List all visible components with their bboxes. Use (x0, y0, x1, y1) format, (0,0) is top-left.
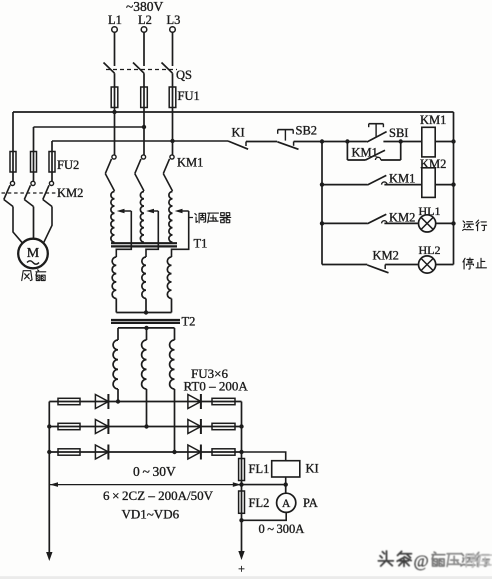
contact KM1 interlock (367, 175, 422, 185)
T1 wiper arrow 2 (146, 209, 158, 214)
label 0~30V (133, 464, 176, 479)
wire T1 wiper drop 1 (116, 211, 131, 257)
fuse FU2 pole 1 (10, 152, 16, 182)
wire T2 primary tail 2 (145, 299, 147, 313)
wire SB1 to coil KM1 (383, 141, 421, 143)
label KM2 row4 (373, 249, 399, 263)
diode VD left 3 (95, 445, 108, 460)
label 停止 (463, 258, 486, 269)
transformer T2 primary winding 3 (167, 257, 171, 298)
label 风扇 (22, 270, 46, 281)
junction L3 (170, 139, 174, 143)
label FU1 (178, 89, 200, 103)
fuse FU3 left 1 (58, 398, 80, 404)
junction rectifier phase 3 (172, 450, 176, 454)
negative output arrow (46, 552, 52, 561)
label SB2 (296, 124, 318, 138)
label T1 (194, 237, 208, 251)
svg-text:KI: KI (232, 126, 245, 140)
wire main bus L1 (13, 111, 454, 113)
label FL1 (249, 462, 270, 476)
junction row2 left (320, 182, 324, 186)
coil KM1 (422, 127, 435, 157)
transformer T1 winding 2 (140, 192, 144, 243)
svg-text:RT0 – 200A: RT0 – 200A (184, 379, 249, 394)
switch QS pole 1 blade (104, 63, 115, 88)
svg-text:M: M (27, 246, 40, 261)
label 6x2CZ-200A/50V (103, 488, 214, 503)
KM2 linkage dashed (2, 192, 57, 194)
contactor KM2 main contact 1 (4, 181, 15, 206)
label KM2 row3 (389, 211, 415, 225)
svg-text:L3: L3 (167, 13, 181, 27)
wire row2 lead (322, 184, 367, 186)
T1 core (111, 243, 177, 246)
QS linkage dashed (106, 69, 177, 71)
label K1 coil (306, 462, 319, 476)
svg-text:6 × 2CZ – 200A/50V: 6 × 2CZ – 200A/50V (103, 488, 214, 503)
junction row3 left (320, 221, 324, 225)
wire selfhold down (346, 142, 348, 161)
label KM2 main (57, 186, 83, 200)
wire rectifier row 3 (49, 451, 241, 453)
wire SB2 to SB1 (294, 141, 367, 143)
junction bus-L1 (112, 110, 116, 114)
dimension line 0-30V (49, 482, 241, 487)
label HL2 (419, 243, 441, 257)
terminal L1 (108, 13, 122, 32)
wire L2 drop (143, 32, 145, 66)
svg-text:FL1: FL1 (249, 462, 270, 476)
label FL2 (249, 496, 270, 510)
label FU3x6 (191, 366, 228, 381)
svg-text:L2: L2 (138, 13, 152, 27)
wire left control column (321, 142, 323, 265)
scan edge shade bottom (0, 576, 492, 579)
wire coil KM2 to bus (435, 184, 453, 186)
junction selfhold left (345, 139, 349, 143)
transformer T2 primary winding 2 (142, 257, 146, 298)
label T2 (182, 315, 196, 329)
shunt FL2 (239, 491, 245, 513)
motor M fan (18, 239, 48, 269)
junction rectifier phase 1 (116, 399, 120, 403)
junction selfhold right (399, 139, 403, 143)
wire T2 phase 3 to rectifier (174, 389, 176, 452)
junction pos row3 (239, 450, 243, 454)
fuse FU3 right 3 (212, 449, 235, 455)
lamp HL1 run (419, 215, 436, 232)
T1 wiper arrow 1 (117, 209, 132, 214)
wire phase 1 to KM1 (114, 112, 116, 155)
wire K1 branch bottom (242, 477, 286, 485)
fuse FU1 pole 3 (169, 87, 176, 112)
fuse FU3 right 2 (212, 423, 235, 429)
coil KM2 (422, 168, 435, 198)
diode VD right 3 (188, 445, 201, 460)
svg-text:KM1: KM1 (177, 156, 203, 170)
contactor KM1 main contact 3 (163, 155, 174, 191)
wire phase 2 to KM1 (143, 112, 145, 155)
fuse FU3 left 3 (58, 449, 80, 455)
svg-text:SBI: SBI (389, 126, 408, 140)
label plus (238, 562, 245, 576)
junction bus row1 (451, 139, 455, 143)
wire row4 lead (322, 264, 367, 266)
junction L2 (142, 125, 146, 129)
transformer T1 winding 3 (169, 192, 173, 243)
svg-text:KM2: KM2 (420, 157, 446, 171)
junction PA bottom (239, 518, 243, 522)
fuse FU3 left 2 (58, 423, 80, 429)
junction control column (320, 139, 324, 143)
svg-text:KM2: KM2 (389, 211, 415, 225)
wire T2 primary star bus (116, 312, 171, 314)
wire K1 to SB2 (246, 141, 277, 143)
fuse FU2 pole 3 (49, 152, 55, 182)
wire L3 drop (172, 32, 174, 66)
contactor KM1 main contact 2 (135, 155, 146, 191)
pushbutton SB1 start (367, 124, 387, 142)
contact KM2 NO lamp (367, 214, 418, 224)
svg-text:PA: PA (303, 496, 318, 510)
svg-text:T1: T1 (194, 237, 208, 251)
label K1 contact (232, 126, 245, 140)
wire coil KM1 to bus (435, 141, 453, 143)
wire T2 primary tail 3 (171, 299, 173, 313)
wire L1 drop (114, 32, 116, 66)
wire phase 3 to KM1 (172, 112, 174, 155)
label 运行 (463, 220, 487, 231)
T2 core (111, 320, 180, 323)
terminal L2 (138, 13, 152, 32)
wire branch L3 control feed (52, 140, 228, 142)
wire positive bus (241, 402, 243, 553)
label FU2 (57, 158, 79, 172)
wire T2 phase 1 to rectifier (117, 389, 119, 402)
wire rectifier row 2 (49, 426, 241, 428)
svg-text:T2: T2 (182, 315, 196, 329)
wire HL2 to bus (436, 264, 453, 266)
svg-text:KM1: KM1 (389, 172, 415, 186)
svg-text:FL2: FL2 (249, 496, 270, 510)
label HL1 (419, 204, 441, 218)
contact KM1 selfhold (366, 150, 401, 160)
contactor KM2 main contact 2 (24, 181, 35, 206)
svg-text:SB2: SB2 (296, 124, 318, 138)
junction pos row2 (239, 424, 243, 428)
junction neg row3 (47, 450, 51, 454)
svg-text:A: A (282, 498, 291, 510)
label VD1~VD6 (122, 507, 180, 522)
switch QS pole 3 blade (162, 63, 173, 88)
shunt FL1 (239, 459, 245, 481)
label RT0-200A (184, 379, 249, 394)
svg-text:0 ~ 30V: 0 ~ 30V (133, 464, 176, 479)
transformer T2 secondary winding 2 (142, 328, 147, 389)
svg-text:KM1: KM1 (352, 146, 378, 160)
svg-text:0 ~ 300A: 0 ~ 300A (259, 522, 305, 536)
pushbutton SB2 stop (277, 130, 298, 150)
label KM1 coil (420, 113, 446, 127)
svg-text:+: + (238, 562, 245, 576)
contactor KM1 main contact 1 (105, 155, 116, 191)
ammeter PA (277, 493, 296, 512)
junction rectifier phase 2 (144, 424, 148, 428)
lamp HL2 stop (419, 256, 436, 273)
wire fan drop 2 (33, 127, 35, 152)
svg-text:FU2: FU2 (57, 158, 79, 172)
transformer T2 secondary winding 3 (170, 328, 175, 389)
wire motor lead 3 (43, 207, 52, 244)
wire T1 wiper drop 2 (146, 211, 158, 257)
relay coil K1 (272, 461, 300, 477)
label KM1 selfhold (352, 146, 378, 160)
junction bus row3 (451, 221, 455, 225)
wire right control bus (453, 112, 455, 265)
junction bus row2 (451, 182, 455, 186)
label KM1 interlock (389, 172, 415, 186)
svg-text:HL2: HL2 (419, 243, 441, 257)
wire motor lead 1 (13, 207, 23, 244)
label PA (303, 496, 318, 510)
wire K1 branch top (242, 452, 286, 461)
junction K1 bottom (284, 482, 288, 486)
label 0~300A (259, 522, 305, 536)
contactor KM2 main contact 3 (43, 181, 54, 206)
transformer T2 primary winding 1 (112, 257, 116, 298)
transformer T2 secondary winding 1 (113, 328, 118, 389)
fuse FU2 pole 2 (31, 152, 37, 182)
wire rectifier row 1 (49, 401, 241, 403)
transformer T1 winding 1 (111, 192, 115, 243)
svg-text:KM2: KM2 (373, 249, 399, 263)
diode VD left 2 (95, 419, 108, 434)
svg-text:~380V: ~380V (126, 0, 164, 14)
junction T2 secondary star (144, 326, 148, 330)
fuse FU1 pole 2 (141, 87, 148, 112)
wire fan drop 1 (12, 112, 14, 152)
label QS (176, 68, 192, 82)
wire selfhold lead (347, 159, 365, 161)
svg-text:QS: QS (176, 68, 192, 82)
relay contact K1 (228, 141, 248, 149)
label KM1 main (177, 156, 203, 170)
svg-text:KM1: KM1 (420, 113, 446, 127)
diode VD left 1 (95, 394, 108, 409)
wire T2 phase 2 to rectifier (146, 389, 148, 427)
junction neg row2 (47, 424, 51, 428)
wire PA top (285, 485, 287, 494)
positive output arrow (238, 551, 244, 560)
wire fan drop 3 (51, 141, 53, 152)
terminal L3 (167, 13, 181, 32)
wire T2 primary tail 1 (115, 299, 117, 313)
svg-text:KM2: KM2 (57, 186, 83, 200)
svg-text:VD1~VD6: VD1~VD6 (122, 507, 180, 522)
svg-text:L1: L1 (108, 13, 122, 27)
wire HL1 to bus (436, 222, 453, 224)
label 调压器 (195, 213, 231, 223)
label ~380V supply (126, 0, 164, 14)
junction T2 primary star (144, 310, 148, 314)
contact KM2 NC lamp (367, 265, 418, 273)
switch QS pole 2 blade (133, 63, 144, 88)
wire T1 wiper drop 3 (172, 211, 189, 257)
wire selfhold up (400, 142, 402, 161)
label KM2 coil (420, 157, 446, 171)
wire motor lead 2 (33, 207, 35, 239)
fuse FU3 right 1 (212, 398, 235, 404)
wire PA bottom (242, 512, 287, 520)
svg-text:HL1: HL1 (419, 204, 441, 218)
svg-text:FU1: FU1 (178, 89, 200, 103)
diode VD right 1 (188, 394, 201, 409)
wire T2 secondary star bus (118, 327, 175, 329)
diode VD right 2 (188, 419, 201, 434)
T1 wiper arrow 3 (175, 209, 189, 214)
svg-text:KI: KI (306, 462, 319, 476)
label 调压器 leader (189, 217, 193, 219)
svg-text:@: @ (414, 552, 429, 571)
fuse FU1 pole 1 (111, 87, 118, 112)
wire row3 lead (322, 222, 367, 224)
watermark toutiao (378, 551, 491, 570)
label SB1 (389, 126, 408, 140)
wire negative bus (48, 402, 50, 554)
wire branch L2 (34, 126, 145, 128)
junction bus below FL1 (239, 482, 243, 486)
